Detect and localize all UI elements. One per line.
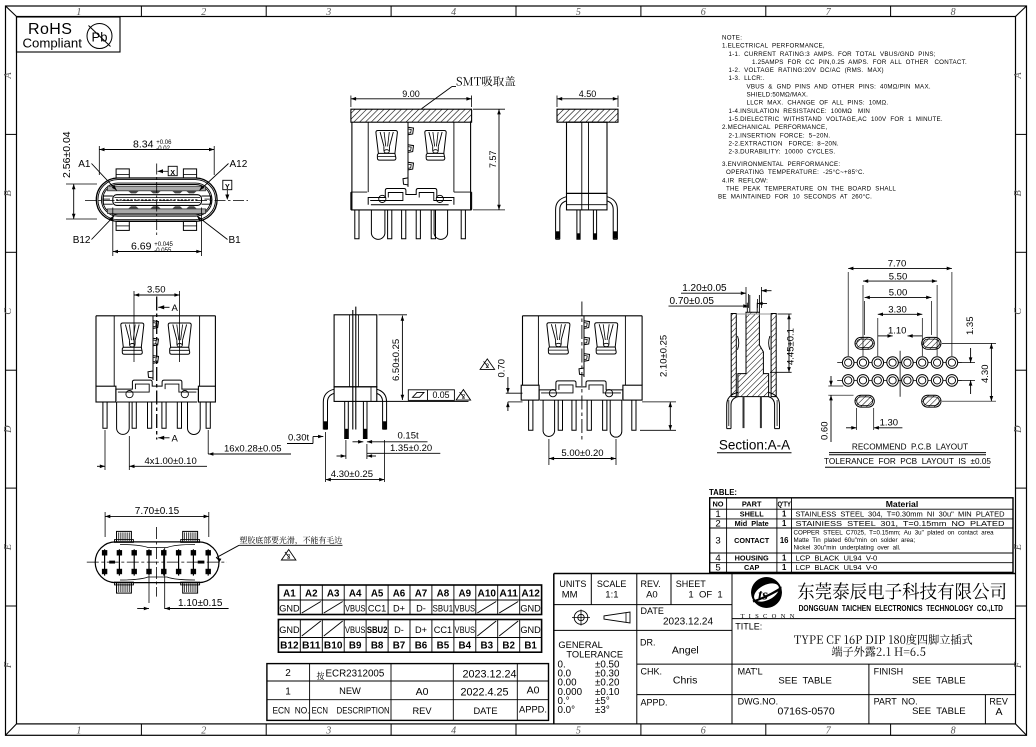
svg-text:A12: A12 xyxy=(230,159,248,170)
dim 6.69 +0.045/-0.055 xyxy=(112,208,114,257)
svg-text:1: 1 xyxy=(782,563,787,572)
svg-text:A: A xyxy=(3,72,14,80)
pcb dim 7.70 xyxy=(847,272,849,356)
view4 latch spring xyxy=(152,316,154,380)
view3 legs xyxy=(556,197,567,240)
svg-text:SHEET: SHEET xyxy=(676,579,707,589)
svg-text:Nickel 30u"min underplating: Nickel 30u"min underplating over all. xyxy=(794,544,901,551)
svg-text:APPD.: APPD. xyxy=(519,704,547,714)
svg-text:A11: A11 xyxy=(499,588,518,599)
svg-text:B12: B12 xyxy=(280,641,299,652)
svg-text:E: E xyxy=(3,544,14,551)
svg-text:Section:A-A: Section:A-A xyxy=(719,438,790,453)
svg-text:1: 1 xyxy=(76,726,81,737)
svg-text:A0: A0 xyxy=(646,589,658,600)
svg-text:2.10±0.25: 2.10±0.25 xyxy=(659,335,670,377)
svg-text:F: F xyxy=(1013,661,1024,669)
svg-text:-0.055: -0.055 xyxy=(154,248,172,254)
svg-text:F: F xyxy=(3,661,14,669)
svg-text:0.30t: 0.30t xyxy=(288,433,309,444)
view2 spring contacts xyxy=(376,131,398,154)
svg-text:B6: B6 xyxy=(415,641,428,652)
dim 1.10±0.15 bottom xyxy=(148,576,150,603)
svg-text:1 OF 1: 1 OF 1 xyxy=(688,589,722,600)
datum triangle 2 view6 xyxy=(480,359,495,370)
svg-text:1.35±0.20: 1.35±0.20 xyxy=(390,443,432,454)
svg-text:2-2.EXTRACTION FORCE: 8~20N: 2-2.EXTRACTION FORCE: 8~20N. xyxy=(729,141,839,148)
svg-text:1.20±0.05: 1.20±0.05 xyxy=(682,283,727,294)
svg-text:1.35: 1.35 xyxy=(965,317,976,336)
svg-text:4: 4 xyxy=(451,726,456,737)
svg-text:B: B xyxy=(1013,190,1024,196)
svg-text:APPD.: APPD. xyxy=(641,698,668,708)
svg-text:TITLE:: TITLE: xyxy=(735,622,762,632)
svg-text:5: 5 xyxy=(576,7,581,18)
dim 7.57 xyxy=(473,108,505,110)
svg-text:NOTE:: NOTE: xyxy=(722,35,742,42)
svg-text:16x0.28±0.05: 16x0.28±0.05 xyxy=(224,444,282,455)
svg-text:VBUS: VBUS xyxy=(345,603,366,613)
svg-text:DWG.NO.: DWG.NO. xyxy=(738,697,779,707)
svg-text:VBUS: VBUS xyxy=(345,625,366,635)
view3 cap hatched xyxy=(557,109,618,122)
svg-text:D+: D+ xyxy=(393,603,405,613)
svg-text:0.70: 0.70 xyxy=(496,359,507,378)
svg-text:STAINLESS STEEL 304, T=0.30: STAINLESS STEEL 304, T=0.30mm NI 30u" MI… xyxy=(796,510,1006,519)
svg-text:STAINIESS STEEL 301, T=0.15: STAINIESS STEEL 301, T=0.15mm NO PLATED xyxy=(796,519,1006,528)
svg-text:4.30: 4.30 xyxy=(980,365,991,384)
flatness callout 0.05 xyxy=(377,400,469,402)
view6 latch spring xyxy=(583,316,585,377)
svg-text:UNITS: UNITS xyxy=(559,579,586,589)
svg-text:5.50: 5.50 xyxy=(889,271,908,282)
svg-text:5.00±0.20: 5.00±0.20 xyxy=(561,448,603,459)
front view connector face xyxy=(96,178,217,221)
company logo TS xyxy=(751,577,781,607)
svg-text:Angel: Angel xyxy=(672,645,699,657)
svg-text:C: C xyxy=(1013,308,1024,315)
svg-text:Compliant: Compliant xyxy=(23,36,83,51)
bottom view tabs knurled xyxy=(117,531,132,542)
svg-text:A7: A7 xyxy=(415,588,428,599)
svg-text:SHELL: SHELL xyxy=(740,510,764,519)
svg-text:THE PEAK TEMPERATURE ON TH: THE PEAK TEMPERATURE ON THE BOARD SHALL xyxy=(726,186,896,193)
view3 body xyxy=(567,122,608,193)
dim 4.45±0.1 xyxy=(778,313,792,315)
svg-text:GND: GND xyxy=(279,625,300,635)
svg-text:DATE: DATE xyxy=(473,706,497,716)
svg-text:Mid Plate: Mid Plate xyxy=(735,519,769,528)
svg-text:PART: PART xyxy=(742,500,762,509)
dim 0.70±0.05 xyxy=(748,294,750,308)
svg-text:MAT'L: MAT'L xyxy=(738,667,763,677)
svg-text:B11: B11 xyxy=(302,641,321,652)
svg-text:2-3.DURABILITY: 10000 CYCLES: 2-3.DURABILITY: 10000 CYCLES. xyxy=(729,149,836,156)
view2 SMT pick cap hatched xyxy=(351,109,472,122)
svg-text:CC1: CC1 xyxy=(368,603,386,613)
svg-text:COPPER STEEL C7025, T=0.15m: COPPER STEEL C7025, T=0.15mm; Au 3u" pla… xyxy=(794,529,995,536)
projection symbols xyxy=(578,614,584,620)
svg-text:9.00: 9.00 xyxy=(402,89,420,99)
section line A-A xyxy=(156,297,158,440)
dim 4x1.00±0.10 xyxy=(104,430,106,470)
svg-text:3: 3 xyxy=(325,7,331,18)
svg-text:2: 2 xyxy=(201,726,206,737)
svg-text:VBUS: VBUS xyxy=(455,625,476,635)
svg-text:GENERAL: GENERAL xyxy=(558,640,602,650)
view2 solder legs xyxy=(355,210,359,239)
svg-text:A9: A9 xyxy=(459,588,472,599)
svg-text:2: 2 xyxy=(715,518,720,529)
svg-text:6.69: 6.69 xyxy=(131,240,152,252)
svg-text:0.60: 0.60 xyxy=(819,422,830,441)
svg-text:4.45±0.1: 4.45±0.1 xyxy=(786,328,797,365)
svg-text:Chris: Chris xyxy=(673,675,698,687)
svg-text:4.IR REFLOW:: 4.IR REFLOW: xyxy=(722,177,768,184)
svg-text:0.70±0.05: 0.70±0.05 xyxy=(670,296,715,307)
svg-text:LCP BLACK UL94 V-0: LCP BLACK UL94 V-0 xyxy=(796,553,878,562)
svg-text:DR.: DR. xyxy=(640,638,656,648)
datum triangle 2 bottom xyxy=(281,550,296,561)
svg-text:HOUSING: HOUSING xyxy=(735,553,769,562)
svg-text:GND: GND xyxy=(520,625,541,635)
svg-text:A1: A1 xyxy=(283,588,296,599)
svg-text:0.15t: 0.15t xyxy=(398,431,419,442)
svg-text:A3: A3 xyxy=(327,588,340,599)
svg-text:B5: B5 xyxy=(437,641,450,652)
pcb dim 1.30 xyxy=(856,408,858,430)
view2 shell body xyxy=(352,122,471,210)
svg-text:2: 2 xyxy=(201,7,206,18)
baseline xyxy=(508,401,523,403)
svg-text:0.05: 0.05 xyxy=(432,390,449,400)
svg-text:6: 6 xyxy=(701,726,706,737)
dim 16x0.28±0.05 xyxy=(207,430,209,454)
pcb layout slots hatched xyxy=(855,337,874,349)
svg-text:5.00: 5.00 xyxy=(889,288,908,299)
svg-text:C: C xyxy=(3,308,14,315)
bottom view pins xyxy=(104,549,106,575)
svg-text:B12: B12 xyxy=(73,235,91,246)
dim 8.34 +0.06/-0.02 xyxy=(98,146,100,175)
svg-text:6: 6 xyxy=(701,7,706,18)
svg-text:1-4.INSULATION RESISTANCE: 1: 1-4.INSULATION RESISTANCE: 100MΩ MIN xyxy=(729,108,871,115)
svg-text:7.70±0.15: 7.70±0.15 xyxy=(135,506,180,517)
view6 spring contacts xyxy=(547,323,570,347)
svg-text:ECR2312005: ECR2312005 xyxy=(326,669,385,680)
svg-text:1-1. CURRENT RATING:3 AMPS.: 1-1. CURRENT RATING:3 AMPS. FOR TOTAL VB… xyxy=(729,51,936,58)
svg-text:3: 3 xyxy=(325,726,331,737)
svg-text:TOLERANCE FOR PCB LAYOUT I: TOLERANCE FOR PCB LAYOUT IS ±0.05 xyxy=(824,457,991,466)
svg-text:B4: B4 xyxy=(459,641,472,652)
svg-text:CC1: CC1 xyxy=(434,625,452,635)
svg-text:B2: B2 xyxy=(502,641,515,652)
svg-text:3.ENVIRONMENTAL PERFORMANCE:: 3.ENVIRONMENTAL PERFORMANCE: xyxy=(722,161,840,168)
svg-text:1: 1 xyxy=(285,686,291,697)
svg-text:-0.02: -0.02 xyxy=(156,146,170,152)
svg-text:0.0°: 0.0° xyxy=(558,705,576,716)
svg-text:CAP: CAP xyxy=(744,563,760,572)
svg-text:REV: REV xyxy=(412,706,432,716)
dim 1.20±0.05 xyxy=(745,287,747,308)
svg-text:1.10: 1.10 xyxy=(888,325,907,336)
connector tongue xyxy=(113,195,202,206)
title block frame xyxy=(553,574,555,724)
svg-text:B7: B7 xyxy=(393,641,406,652)
dim 7.70±0.15 bottom xyxy=(104,512,106,537)
svg-text:CONTACT: CONTACT xyxy=(734,536,770,545)
svg-text:D-: D- xyxy=(416,603,426,613)
svg-text:SBU1: SBU1 xyxy=(433,603,454,613)
dim 1.35±0.20 xyxy=(345,440,347,459)
svg-text:REV.: REV. xyxy=(641,579,661,589)
svg-text:BE MAINTAINED FOR 10 SECON: BE MAINTAINED FOR 10 SECONDS AT 260°C. xyxy=(718,194,872,201)
svg-text:D+: D+ xyxy=(415,625,427,635)
svg-text:2.56±0.04: 2.56±0.04 xyxy=(61,131,73,178)
svg-text:2.MECHANICAL PERFORMANCE,: 2.MECHANICAL PERFORMANCE, xyxy=(722,124,827,131)
view4 spring contacts xyxy=(121,323,144,347)
pcb dim 4.30 xyxy=(942,342,996,344)
bottom view body outline xyxy=(95,542,219,583)
datum X symbol xyxy=(158,169,164,173)
svg-text:1.30: 1.30 xyxy=(880,417,899,428)
view4 body rear view xyxy=(96,316,215,386)
svg-text:1.25AMPS FOR CC PIN,0.25 A: 1.25AMPS FOR CC PIN,0.25 AMPS. FOR ALL O… xyxy=(752,59,967,66)
dim 9.00 xyxy=(350,96,352,108)
svg-text:A10: A10 xyxy=(478,588,497,599)
svg-text:B: B xyxy=(3,190,14,196)
svg-text:7.57: 7.57 xyxy=(488,150,498,168)
svg-text:LLCR MAX. CHANGE OF ALL P: LLCR MAX. CHANGE OF ALL PINS: 10MΩ. xyxy=(747,100,889,107)
svg-text:5: 5 xyxy=(715,563,720,574)
svg-text:A1: A1 xyxy=(78,159,91,170)
svg-text:T I S C O N N: T I S C O N N xyxy=(741,613,796,620)
view2 latch spring xyxy=(407,122,409,187)
svg-text:A4: A4 xyxy=(349,588,362,599)
svg-text:SEE TABLE: SEE TABLE xyxy=(912,675,966,686)
svg-text:2: 2 xyxy=(285,668,291,679)
svg-text:D-: D- xyxy=(394,625,404,635)
pcb dim 0.60 xyxy=(828,385,843,387)
svg-text:2023.12.24: 2023.12.24 xyxy=(663,617,713,628)
pcb dim 5.00 xyxy=(864,301,866,335)
svg-text:NO: NO xyxy=(712,500,723,509)
svg-text:Matte Tin plated 60u"min o: Matte Tin plated 60u"min on solder area; xyxy=(794,537,916,544)
svg-text:A0: A0 xyxy=(527,684,540,696)
centerlines view1 xyxy=(156,164,158,237)
datum Y symbol xyxy=(223,180,232,189)
svg-text:B10: B10 xyxy=(324,641,343,652)
svg-text:OPERATING TEMPERATURE: -25°C: OPERATING TEMPERATURE: -25°C~+85°C. xyxy=(726,169,865,176)
view4 organizer xyxy=(116,380,198,402)
svg-text:A8: A8 xyxy=(437,588,450,599)
svg-text:Q'TY: Q'TY xyxy=(777,500,791,509)
svg-text:VBUS: VBUS xyxy=(455,603,476,613)
pcb dim 1.10 xyxy=(878,335,893,337)
svg-text:ECN DESCRIPTION: ECN DESCRIPTION xyxy=(312,706,390,716)
svg-text:MM: MM xyxy=(562,589,578,600)
svg-text:FINISH: FINISH xyxy=(874,667,904,677)
svg-text:1.ELECTRICAL PERFORMANCE,: 1.ELECTRICAL PERFORMANCE, xyxy=(722,43,825,50)
svg-text:SEE TABLE: SEE TABLE xyxy=(778,675,832,686)
pin assignment table xyxy=(278,585,541,615)
svg-text:8: 8 xyxy=(951,726,956,737)
svg-text:VBUS & GND PINS AND OTHER: VBUS & GND PINS AND OTHER PINS: 40MΩ/PIN… xyxy=(747,83,931,90)
dim 4.50 xyxy=(556,96,558,108)
svg-text:GND: GND xyxy=(520,603,541,613)
svg-text:1-3. LLCR:.: 1-3. LLCR:. xyxy=(729,75,765,82)
svg-text:A: A xyxy=(1013,72,1024,80)
svg-text:A: A xyxy=(172,434,179,445)
dim 0.70 xyxy=(507,377,509,393)
svg-text:1: 1 xyxy=(782,553,787,562)
svg-text:4x1.00±0.10: 4x1.00±0.10 xyxy=(145,456,197,467)
svg-text:4.50: 4.50 xyxy=(579,89,597,99)
RoHS compliant logo xyxy=(17,17,121,52)
svg-text:E: E xyxy=(1013,544,1024,551)
svg-text:A: A xyxy=(995,706,1002,718)
view6 centerline xyxy=(581,302,583,441)
label SMT pick cap leader xyxy=(422,87,453,109)
svg-text:A12: A12 xyxy=(521,588,540,599)
svg-text:5: 5 xyxy=(576,726,581,737)
svg-text:D: D xyxy=(1013,425,1024,434)
pcb dim 3.30 xyxy=(877,318,879,356)
svg-text:B3: B3 xyxy=(481,641,494,652)
svg-text:LCP BLACK UL94 V-0: LCP BLACK UL94 V-0 xyxy=(796,563,878,572)
svg-text:B8: B8 xyxy=(371,641,384,652)
svg-text:NEW: NEW xyxy=(339,686,361,696)
svg-text:D: D xyxy=(3,425,14,434)
svg-text:SCALE: SCALE xyxy=(597,579,627,589)
svg-text:A: A xyxy=(172,303,179,314)
dim 5.00±0.20 xyxy=(548,439,550,465)
svg-text:3: 3 xyxy=(715,536,720,547)
dim 2.10±0.25 xyxy=(640,429,676,431)
svg-text:B9: B9 xyxy=(349,641,362,652)
svg-text:6.50±0.25: 6.50±0.25 xyxy=(391,339,402,381)
svg-text:1:1: 1:1 xyxy=(605,589,618,600)
svg-text:1.10±0.15: 1.10±0.15 xyxy=(178,598,223,609)
svg-text:2022.4.25: 2022.4.25 xyxy=(460,686,508,698)
svg-text:4.30±0.25: 4.30±0.25 xyxy=(331,469,373,480)
view6 organizer xyxy=(539,381,623,400)
shell mounting tabs xyxy=(116,169,129,178)
svg-text:TABLE:: TABLE: xyxy=(709,488,737,497)
svg-text:GND: GND xyxy=(279,603,300,613)
view5 bent legs xyxy=(323,389,334,429)
view4 legs xyxy=(103,402,107,428)
svg-text:PART NO.: PART NO. xyxy=(874,697,918,707)
section legs xyxy=(727,392,738,428)
svg-text:X: X xyxy=(170,170,175,177)
svg-text:ECN NO.: ECN NO. xyxy=(273,706,310,716)
svg-text:A0: A0 xyxy=(416,686,429,698)
pcb dim 1.35 xyxy=(959,362,976,364)
svg-text:1: 1 xyxy=(782,510,787,519)
svg-text:B1: B1 xyxy=(524,641,537,652)
svg-text:3.30: 3.30 xyxy=(888,305,907,316)
company name chinese xyxy=(798,582,1006,599)
svg-text:1: 1 xyxy=(76,7,81,18)
pcb layout holes xyxy=(837,362,962,364)
svg-text:SHIELD:50MΩ/MAX.: SHIELD:50MΩ/MAX. xyxy=(747,92,809,99)
section A-A cut view xyxy=(731,314,736,397)
svg-text:Pb: Pb xyxy=(92,30,108,45)
dim 6.50±0.25 xyxy=(379,314,408,316)
svg-text:TOLERANCE: TOLERANCE xyxy=(566,650,623,660)
svg-text:2-1.INSERTION FORCE: 5~20N.: 2-1.INSERTION FORCE: 5~20N. xyxy=(729,132,831,139)
bottom view centerlines xyxy=(87,561,227,563)
svg-text:8: 8 xyxy=(951,7,956,18)
svg-text:A2: A2 xyxy=(305,588,318,599)
svg-text:2023.12.24: 2023.12.24 xyxy=(462,668,516,680)
view6 body front view xyxy=(523,316,643,385)
note smooth plastic bottom xyxy=(240,536,342,545)
datum triangle 2 view5 xyxy=(456,390,471,401)
ECN revision table xyxy=(267,664,549,721)
svg-text:RECOMMEND P.C.B LAYOUT: RECOMMEND P.C.B LAYOUT xyxy=(852,442,968,451)
svg-text:7.70: 7.70 xyxy=(888,259,907,270)
dim 3.50 xyxy=(133,291,135,362)
dim 4.30±0.25 xyxy=(325,432,327,482)
svg-text:SEE TABLE: SEE TABLE xyxy=(912,706,966,717)
svg-text:B1: B1 xyxy=(229,235,242,246)
svg-text:1-2. VOLTAGE RATING:20V DC/: 1-2. VOLTAGE RATING:20V DC/AC (RMS. MAX) xyxy=(729,67,884,74)
dim 2.56±0.04 xyxy=(66,183,97,185)
svg-text:A5: A5 xyxy=(371,588,384,599)
svg-text:Material: Material xyxy=(886,499,918,509)
svg-text:±3°: ±3° xyxy=(595,705,610,716)
svg-text:8.34: 8.34 xyxy=(133,138,154,150)
pcb dim 5.50 xyxy=(862,285,864,356)
svg-text:CHK.: CHK. xyxy=(641,667,663,677)
svg-text:3.50: 3.50 xyxy=(147,285,166,296)
svg-text:SBU2: SBU2 xyxy=(367,625,388,635)
svg-text:1: 1 xyxy=(782,519,787,528)
svg-text:REV: REV xyxy=(989,697,1008,707)
svg-text:16: 16 xyxy=(780,536,789,545)
svg-text:DONGGUAN TAICHEN ELECTRONICS: DONGGUAN TAICHEN ELECTRONICS TECHNOLOGY … xyxy=(799,604,1003,613)
svg-text:DATE: DATE xyxy=(641,606,664,616)
view6 legs xyxy=(529,400,533,430)
svg-text:A6: A6 xyxy=(393,588,406,599)
svg-text:1-5.DIELECTRIC WITHSTAND VOL: 1-5.DIELECTRIC WITHSTAND VOLTAGE,AC 100V… xyxy=(729,116,943,123)
view2 housing organizer xyxy=(368,189,454,205)
svg-text:0716S-0570: 0716S-0570 xyxy=(778,706,835,718)
view5 body side view xyxy=(334,315,377,387)
svg-text:4: 4 xyxy=(451,7,456,18)
